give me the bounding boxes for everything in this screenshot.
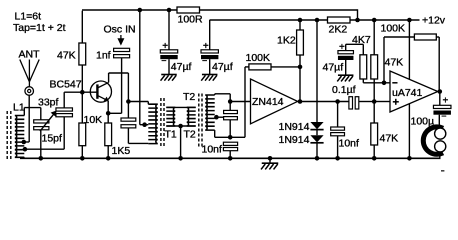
op-amp uA741 <box>390 71 438 112</box>
label 1N914 D2 <box>279 134 310 146</box>
wire emitter to 1K5 <box>107 113 109 123</box>
node base <box>80 90 85 95</box>
antenna terminal <box>25 87 34 96</box>
wire T1sec T2pri bottoms <box>166 125 195 127</box>
svg-text:47µf: 47µf <box>323 62 344 74</box>
svg-text:ANT: ANT <box>19 49 41 61</box>
wire diode1 to diode2 <box>316 130 318 136</box>
svg-text:+: + <box>203 41 209 52</box>
core T2 <box>199 94 202 149</box>
wire varcap to ground rail <box>40 130 42 159</box>
label 100R <box>178 14 204 26</box>
svg-text:+12v: +12v <box>422 15 446 27</box>
wire T1sec T2pri tops <box>166 106 195 108</box>
svg-text:2K2: 2K2 <box>329 24 348 36</box>
wire ground rail <box>20 157 441 159</box>
node 10K ground <box>80 156 85 161</box>
node main ground <box>268 156 273 161</box>
node 1K2 bottom <box>298 65 303 70</box>
wire AGC to 100K <box>230 67 249 137</box>
svg-text:0.1µf: 0.1µf <box>332 84 356 96</box>
wire tank node to T1 top <box>128 101 148 103</box>
transformer T2 secondary <box>205 95 215 130</box>
node tank top <box>126 99 131 104</box>
svg-text:T2: T2 <box>184 129 196 141</box>
node 47K ground <box>372 156 377 161</box>
capacitor 15pf variable <box>34 120 49 130</box>
wire bias to 47K lower <box>373 102 375 124</box>
wire L1 top to varcap <box>24 108 41 120</box>
varcap arrow <box>40 110 57 131</box>
svg-text:33pf: 33pf <box>38 97 59 109</box>
node varcap ground <box>39 156 44 161</box>
wire feedback right <box>436 37 439 92</box>
wire collector up <box>108 73 110 82</box>
label 10nf left <box>202 143 223 155</box>
resistor 4K7 <box>360 55 367 79</box>
svg-text:+: + <box>162 41 168 52</box>
label 33pf <box>38 97 59 109</box>
label 47uf C3 <box>323 62 344 74</box>
ground G1 <box>161 75 177 81</box>
wire tank cap to T1 bottom <box>128 128 148 143</box>
svg-text:47K: 47K <box>385 57 404 69</box>
wire collector down to tank <box>127 73 129 102</box>
capacitor 47uf C1 <box>160 50 177 59</box>
node rail 1K2 <box>298 18 303 23</box>
capacitor 47uf C2 <box>201 50 218 59</box>
node output <box>438 89 443 94</box>
antenna symbol <box>20 60 39 87</box>
capacitor 1nf <box>114 48 130 58</box>
wire cap to AGC node <box>229 120 231 138</box>
capacitor 0.1uf <box>349 97 359 109</box>
osc input arrow <box>117 35 124 46</box>
svg-text:T2: T2 <box>183 91 195 103</box>
wire rail to 47K R1 <box>81 11 83 43</box>
svg-text:1nf: 1nf <box>96 50 111 62</box>
resistor 100R <box>177 7 200 13</box>
label 1nf <box>96 50 111 62</box>
svg-text:4K7: 4K7 <box>352 34 371 46</box>
capacitor tank C <box>121 118 136 128</box>
wire T1T2 to ground rail <box>180 126 182 158</box>
label T2 top <box>183 91 195 103</box>
label ANT <box>19 49 41 61</box>
wire antenna to L1 tap1 <box>24 95 29 142</box>
label 1N914 D1 <box>279 121 310 133</box>
node L1 tap2 <box>23 147 28 152</box>
wire T2sec top to input node <box>215 94 231 102</box>
wire rail to 47K upper <box>373 20 375 55</box>
ground G2 <box>201 75 217 81</box>
capacitor input tune <box>224 110 238 119</box>
node L1 tap1 <box>22 140 27 145</box>
label 15pf <box>42 133 63 145</box>
wire 10K to ground rail <box>81 146 83 159</box>
svg-text:47K: 47K <box>57 50 76 62</box>
node minus input <box>382 81 387 86</box>
svg-text:47K: 47K <box>380 133 399 145</box>
label 100uF <box>411 116 435 128</box>
plus sign opamp <box>393 99 399 105</box>
resistor 10K <box>79 123 86 146</box>
wire rail to diode1 <box>316 20 318 122</box>
svg-text:−: − <box>202 56 207 66</box>
transformer T1 secondary <box>166 107 175 126</box>
svg-text:100K: 100K <box>381 23 406 35</box>
wire 1K5 to ground rail <box>107 146 109 159</box>
wire rail corner to 47uf2 <box>209 20 211 50</box>
label 47K upper <box>385 57 404 69</box>
label 1K5 <box>112 145 131 157</box>
wire input node to cap <box>229 102 231 111</box>
capacitor 33pf <box>56 108 72 117</box>
label uA741 <box>392 87 423 99</box>
node output 1K2 <box>298 99 303 104</box>
wire diode2 to ground rail <box>316 143 318 159</box>
capacitor 10nf out <box>331 127 345 136</box>
wire 47uf3 top to 4K7 <box>346 44 364 55</box>
label 47K lower <box>380 133 399 145</box>
svg-text:Osc IN: Osc IN <box>104 24 136 36</box>
label 4K7 <box>352 34 371 46</box>
minus sign opamp <box>392 82 397 84</box>
svg-text:10nf: 10nf <box>202 143 223 155</box>
node diode ground <box>315 156 320 161</box>
svg-text:−: − <box>441 111 446 121</box>
capacitor 100uF <box>433 105 451 114</box>
svg-text:uA741: uA741 <box>392 87 423 99</box>
inductor L1 <box>15 116 25 158</box>
wire 47uf1 to ground <box>168 59 170 74</box>
label T2 bottom <box>184 129 196 141</box>
wire 47K lower to ground rail <box>373 145 375 158</box>
svg-text:ZN414: ZN414 <box>252 96 284 108</box>
wire 47K R1 to base node <box>81 65 83 92</box>
wire opamp V- <box>408 104 410 159</box>
wire 47uf3 to ground <box>345 60 347 75</box>
wire rail to 1K2 <box>299 20 301 30</box>
resistor 100K agc <box>249 64 271 70</box>
wire emitter to 1nf <box>108 112 121 114</box>
label 47uf C2 <box>212 61 233 73</box>
wire 1nf to emitter <box>121 58 123 114</box>
wire 10nf to ground rail <box>229 151 231 159</box>
resistor 47K R1 <box>79 43 86 65</box>
wire tap2 to 33pf <box>25 117 64 149</box>
label 10nf right <box>339 138 360 150</box>
resistor 2K2 <box>328 17 351 23</box>
wire opamp V+ <box>408 20 410 80</box>
wire 33pf to base <box>63 92 65 108</box>
svg-text:1K5: 1K5 <box>112 145 131 157</box>
diode D1 1N914 <box>310 122 323 130</box>
ground G3 <box>337 75 353 81</box>
core L1 <box>7 111 11 159</box>
wire base <box>64 91 97 93</box>
wire 0.1uf to bias node <box>359 101 374 103</box>
wire +12v rail <box>210 19 420 21</box>
svg-text:L1=6t: L1=6t <box>15 11 42 23</box>
plus sign C1 <box>162 41 168 52</box>
label L1=6t <box>15 11 42 23</box>
node T1 tap <box>142 122 147 127</box>
node opamp ground <box>407 156 412 161</box>
node T1T2 ground <box>178 156 183 161</box>
node rail diode <box>315 18 320 23</box>
svg-text:1K2: 1K2 <box>277 35 296 47</box>
svg-text:47µf: 47µf <box>212 61 233 73</box>
wire T2sec bottom <box>215 130 231 137</box>
label 100K fb <box>381 23 406 35</box>
wire 47K upper to bias <box>373 79 375 102</box>
label ZN414 <box>252 96 284 108</box>
node rail to mixer supply <box>138 8 143 13</box>
svg-text:T1: T1 <box>165 129 177 141</box>
wire 1K2 to output <box>299 55 301 102</box>
svg-text:1N914: 1N914 <box>279 121 310 133</box>
diode D2 1N914 <box>310 135 323 143</box>
core T1 <box>161 98 164 146</box>
minus sign C1 <box>161 56 166 66</box>
node T1T2 bottom <box>178 124 183 129</box>
wire output to 100uF <box>439 92 441 106</box>
wire 4K7 to minus input <box>363 79 390 83</box>
wire top supply rail (after 100R) <box>82 9 358 11</box>
transformer T2 primary <box>187 107 196 126</box>
node 10nf out ground <box>335 156 340 161</box>
label Osc IN <box>104 24 136 36</box>
resistor 1K5 <box>105 123 112 146</box>
wire T2 tap to cap <box>215 116 224 118</box>
resistor 47K upper <box>371 55 378 79</box>
earpiece <box>423 127 446 154</box>
resistor 47K lower <box>371 123 378 145</box>
label 2K2 <box>329 24 348 36</box>
wire collector horizontal <box>109 72 129 74</box>
node T2 tap <box>214 115 219 120</box>
wire base to 10K <box>81 92 83 123</box>
svg-text:47µf: 47µf <box>171 61 192 73</box>
minus sign 100uF <box>441 111 446 121</box>
label BC547 <box>50 79 82 91</box>
stray mark <box>441 170 444 172</box>
wire 100K to 1K2 node <box>271 66 300 68</box>
transformer T1 primary <box>148 102 158 144</box>
svg-text:10nf: 10nf <box>339 138 360 150</box>
node output 10nf <box>335 99 340 104</box>
node rail opamp supply <box>407 18 412 23</box>
svg-text:L1: L1 <box>13 102 25 114</box>
wire tank node to cap <box>127 102 129 119</box>
wire emitter down <box>107 101 109 114</box>
label L1 <box>13 102 25 114</box>
svg-text:BC547: BC547 <box>50 79 82 91</box>
capacitor 10nf C agc <box>223 142 237 151</box>
wire 100uF to earpiece <box>438 115 440 128</box>
resistor 1K2 <box>297 30 304 55</box>
wire 1nf branch <box>140 10 149 125</box>
plus sign 100uF <box>443 96 449 107</box>
ground G4 main <box>261 158 278 169</box>
label 47uf C1 <box>171 61 192 73</box>
svg-text:+: + <box>339 42 345 53</box>
wire 47uf2 to ground <box>209 59 211 74</box>
node emitter <box>106 111 111 116</box>
plus sign C2 <box>203 41 209 52</box>
svg-text:100R: 100R <box>178 14 204 26</box>
transistor Q1 BC547 <box>90 81 111 102</box>
node rail 47K <box>372 18 377 23</box>
svg-text:Tap=1t + 2t: Tap=1t + 2t <box>13 22 66 34</box>
wire rail joint vertical <box>357 9 359 20</box>
node ZN414 input <box>228 99 233 104</box>
node AGC <box>228 135 233 140</box>
label Tap=1t + 2t <box>13 22 66 34</box>
svg-text:1N914: 1N914 <box>279 134 310 146</box>
label 1K2 <box>277 35 296 47</box>
label 10K <box>84 114 103 126</box>
wire earpiece to ground rail <box>439 152 441 158</box>
svg-text:15pf: 15pf <box>42 133 63 145</box>
node rail junction <box>355 18 360 23</box>
capacitor 47uf C3 <box>338 51 354 60</box>
label 100K agc <box>246 52 271 64</box>
wire 10nf out to ground rail <box>337 136 339 159</box>
node supply to 47uf1 <box>167 8 172 13</box>
wire input to ZN414 <box>230 101 250 103</box>
label 0.1uf <box>332 84 356 96</box>
wire rail to 47uf1 <box>168 10 170 50</box>
svg-text:+: + <box>443 96 449 107</box>
label T1 <box>165 129 177 141</box>
node bias <box>372 99 377 104</box>
minus sign C2 <box>202 56 207 66</box>
svg-text:−: − <box>161 56 166 66</box>
node 1K5 ground <box>106 156 111 161</box>
node 10nf ground <box>228 156 233 161</box>
plus sign C3 <box>339 42 345 53</box>
wire bias to opamp plus <box>374 101 390 103</box>
svg-text:100K: 100K <box>246 52 271 64</box>
wire ZN414 output <box>298 101 350 103</box>
wire feedback left <box>384 37 414 83</box>
wire output to 10nf <box>337 102 339 128</box>
IC ZN414 <box>251 79 298 124</box>
resistor 100K fb <box>414 34 436 40</box>
label +12v <box>422 15 446 27</box>
label 47K R1 <box>57 50 76 62</box>
wire L1 bottom to rail <box>23 157 25 158</box>
